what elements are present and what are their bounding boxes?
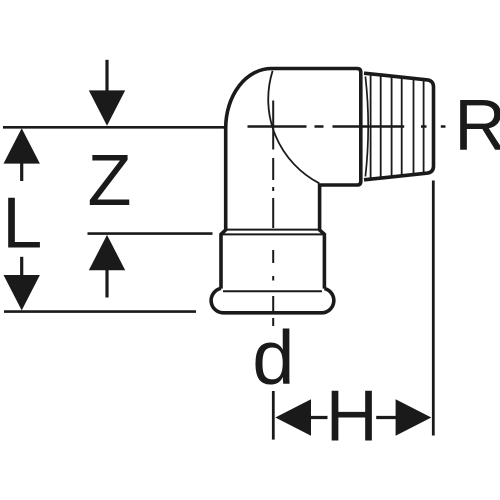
svg-text:R: R	[454, 86, 500, 166]
thread runout arc	[365, 77, 368, 177]
dimension L upper arrow	[4, 128, 40, 181]
H dimension right extension line	[432, 181, 435, 436]
svg-text:Z: Z	[88, 141, 132, 221]
elbow body right: end face, bottom edge, inner corner, right tube edge, socket flare right	[320, 69, 361, 289]
press socket face lower line	[221, 233, 324, 235]
thread crest line 2	[380, 75, 382, 178]
svg-text:d: d	[252, 316, 294, 401]
press socket bead (stadium outline)	[211, 288, 334, 312]
svg-text:L: L	[2, 184, 42, 264]
dimension Z upper arrow	[89, 60, 125, 126]
dimension L lower arrow	[4, 257, 40, 311]
dimension line at socket face level (y=233.6)	[88, 232, 213, 235]
thread crest line 4	[401, 77, 403, 176]
horizontal centerline (dash-dot through fitting axis)	[248, 125, 446, 127]
dimension Z lower arrow	[89, 235, 125, 298]
thread crest line 1	[370, 74, 372, 179]
male thread outline	[364, 73, 434, 180]
vertical centerline (dash-dot through socket axis)	[272, 158, 274, 326]
elbow outer profile: top edge, outer bend, left tube edge, socket flare left	[221, 68, 357, 288]
vertical centerline cross tick at bend center	[272, 101, 274, 150]
dimension H left arrow	[275, 399, 327, 436]
thread crest line 5	[413, 78, 415, 174]
thread crest line 6	[423, 80, 425, 174]
svg-text:H: H	[326, 377, 378, 457]
press socket face upper line	[226, 229, 320, 231]
H dimension left extension line (socket centerline below d)	[272, 391, 275, 440]
dimension H right arrow	[376, 399, 431, 436]
dimension line at axis level (y=127)	[3, 126, 226, 129]
press socket bead top tangent line	[223, 290, 322, 292]
elbow ball curve (sphere silhouette)	[268, 71, 319, 184]
thread crest line 3	[391, 76, 393, 177]
dimension line at fitting bottom level (y=311.6)	[4, 310, 196, 313]
